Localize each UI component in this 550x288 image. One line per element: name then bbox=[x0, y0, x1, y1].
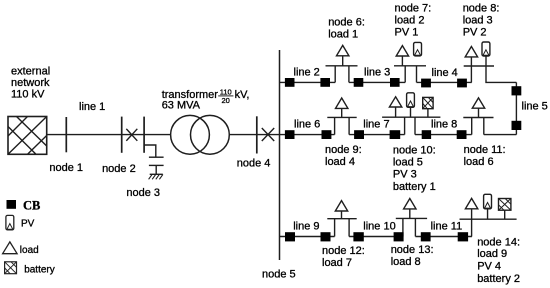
svg-text:node 5: node 5 bbox=[262, 269, 296, 281]
wire line 2 bbox=[280, 81, 336, 83]
node 12 right stub bbox=[348, 219, 350, 237]
load 8 triangle bbox=[404, 199, 416, 209]
battery 2 symbol bbox=[499, 199, 511, 220]
svg-text:battery 1: battery 1 bbox=[393, 181, 436, 193]
node 9 busbar bbox=[327, 116, 356, 118]
CB line 2 at bus bbox=[285, 78, 295, 87]
svg-text:load 4: load 4 bbox=[325, 156, 355, 168]
legend bbox=[3, 199, 55, 276]
legend battery symbol bbox=[5, 262, 17, 274]
svg-text:load 2: load 2 bbox=[395, 15, 425, 27]
node 7 left stub bbox=[404, 66, 406, 83]
CB line 2 at node 6 bbox=[320, 78, 330, 87]
svg-text:kV,: kV, bbox=[235, 89, 250, 101]
node 2 busbar bbox=[121, 117, 123, 153]
svg-text:line 7: line 7 bbox=[363, 119, 389, 131]
svg-text:node 2: node 2 bbox=[102, 163, 136, 175]
load 6 triangle bbox=[472, 98, 484, 108]
wire line 5 vertical bbox=[515, 82, 517, 134]
svg-text:line 11: line 11 bbox=[431, 220, 463, 232]
node 9 left stub bbox=[334, 117, 336, 134]
svg-text:node 9:: node 9: bbox=[325, 144, 362, 156]
node 14 stub bbox=[471, 219, 473, 236]
CB line 9 at bus bbox=[285, 232, 295, 241]
node 7 right stub bbox=[416, 66, 418, 83]
CB line 6 at bus bbox=[285, 130, 295, 139]
load 5 triangle bbox=[389, 97, 401, 107]
node 8 left stub bbox=[470, 66, 472, 82]
earthing branch wire bbox=[144, 145, 156, 157]
svg-text:63 MVA: 63 MVA bbox=[162, 100, 201, 112]
battery 1 symbol bbox=[423, 97, 433, 117]
ground symbol bbox=[149, 174, 163, 179]
node 6 left stub bbox=[334, 66, 336, 83]
svg-text:node 3: node 3 bbox=[126, 187, 160, 199]
svg-text:node 12:: node 12: bbox=[322, 245, 365, 257]
load 3 stem bbox=[470, 57, 472, 66]
load 5 stem bbox=[395, 107, 397, 117]
svg-text:line 1: line 1 bbox=[79, 101, 105, 113]
CB line 8 at node 11 bbox=[457, 130, 467, 139]
CB line 7 at node 9 bbox=[354, 130, 364, 139]
node 13 left stub bbox=[402, 218, 404, 236]
svg-text:PV 4: PV 4 bbox=[477, 260, 501, 272]
svg-text:node 14:: node 14: bbox=[477, 237, 520, 249]
wire line 9 bbox=[280, 236, 335, 238]
wire line 7 bbox=[349, 134, 405, 136]
CB line 7 at node 10 bbox=[390, 130, 401, 139]
svg-text:PV 3: PV 3 bbox=[393, 169, 417, 181]
wire line 6 bbox=[280, 134, 335, 136]
bus node 5 vertical bbox=[279, 50, 281, 260]
node 3 takeoff busbar bbox=[143, 117, 145, 153]
node 13 right stub bbox=[414, 218, 416, 236]
svg-text:battery: battery bbox=[24, 265, 55, 276]
load 1 triangle bbox=[337, 45, 349, 55]
legend PV symbol bbox=[6, 215, 14, 230]
CB line 3 at node 6 bbox=[354, 78, 364, 87]
node 6 right stub bbox=[348, 66, 350, 83]
svg-text:load 6: load 6 bbox=[464, 156, 494, 168]
svg-text:node 13:: node 13: bbox=[391, 244, 434, 256]
svg-text:line 5: line 5 bbox=[522, 100, 548, 112]
svg-text:node 10:: node 10: bbox=[393, 144, 436, 156]
wire node 11 to line 5 bbox=[484, 134, 517, 136]
svg-text:line 10: line 10 bbox=[363, 221, 395, 233]
PV 2 symbol bbox=[482, 42, 490, 66]
svg-text:line 6: line 6 bbox=[294, 119, 320, 131]
external network source box bbox=[8, 117, 47, 155]
svg-text:node 11:: node 11: bbox=[464, 144, 506, 156]
switch X between node 2 and node 3 bbox=[126, 129, 137, 141]
node 1 busbar bbox=[65, 117, 67, 152]
svg-text:PV 2: PV 2 bbox=[463, 27, 487, 39]
load 9 stem bbox=[471, 209, 473, 219]
load 3 triangle bbox=[465, 47, 477, 57]
transformer voltage fraction bbox=[220, 88, 232, 106]
load 9 triangle bbox=[465, 198, 477, 208]
node 6 busbar bbox=[326, 65, 358, 67]
node 10 right stub bbox=[414, 117, 416, 134]
CB line 4 at node 7 bbox=[421, 79, 431, 88]
node 9 right stub bbox=[348, 117, 350, 134]
node 11 right stub bbox=[483, 118, 485, 135]
node 11 left stub bbox=[471, 118, 473, 135]
load 1 stem bbox=[342, 56, 344, 66]
CB line 11 at node 14 bbox=[458, 232, 468, 241]
earthing gap lower plate bbox=[149, 164, 164, 166]
PV 3 symbol bbox=[407, 93, 415, 117]
svg-text:line 3: line 3 bbox=[364, 67, 390, 79]
svg-text:load 5: load 5 bbox=[393, 157, 423, 169]
wire node 8 to line 5 bbox=[486, 66, 516, 82]
CB line 6 at node 9 bbox=[322, 130, 332, 139]
CB squares bbox=[7, 78, 522, 241]
legend CB square bbox=[7, 200, 17, 209]
svg-text:line 9: line 9 bbox=[293, 221, 319, 233]
svg-text:battery 2: battery 2 bbox=[477, 273, 520, 285]
load 6 stem bbox=[478, 108, 480, 117]
svg-text:network: network bbox=[11, 77, 50, 89]
node 13 busbar bbox=[396, 217, 427, 219]
node 4 busbar bbox=[256, 116, 258, 153]
earthing stub bbox=[155, 165, 157, 174]
node 10 busbar bbox=[382, 116, 440, 118]
switch X at node 4 bbox=[262, 128, 274, 141]
CB line 11 at node 13 bbox=[421, 232, 431, 241]
load 2 triangle bbox=[396, 46, 408, 56]
transformer T1 bbox=[171, 115, 230, 154]
CB line 4 at node 8 bbox=[457, 79, 467, 88]
earthing gap upper plate bbox=[149, 156, 164, 158]
svg-text:20: 20 bbox=[222, 96, 230, 105]
PV 4 symbol bbox=[484, 194, 492, 219]
wire line 11 bbox=[415, 236, 472, 238]
wire line 4 bbox=[417, 81, 472, 83]
svg-text:node 1: node 1 bbox=[49, 162, 83, 174]
CB line 8 at node 10 bbox=[422, 130, 431, 139]
CB line 9 at node 12 bbox=[321, 232, 331, 241]
node 12 left stub bbox=[334, 219, 336, 237]
CB line 5 top bbox=[512, 86, 522, 95]
legend load triangle bbox=[3, 242, 18, 254]
svg-text:load: load bbox=[20, 245, 39, 256]
svg-text:line 4: line 4 bbox=[432, 67, 458, 79]
svg-text:load 3: load 3 bbox=[463, 15, 493, 27]
svg-text:node 7:: node 7: bbox=[395, 3, 432, 15]
node 11 busbar bbox=[463, 117, 493, 119]
CB line 10 at node 12 bbox=[353, 232, 363, 241]
svg-text:external: external bbox=[11, 65, 50, 77]
svg-text:load 1: load 1 bbox=[328, 28, 358, 40]
node 10 left stub bbox=[404, 117, 406, 134]
svg-text:load 9: load 9 bbox=[477, 248, 507, 260]
node 14 busbar bbox=[460, 218, 517, 220]
svg-text:line 2: line 2 bbox=[294, 67, 320, 79]
wire line 3 bbox=[349, 81, 405, 83]
load 8 stem bbox=[409, 209, 411, 219]
svg-text:CB: CB bbox=[23, 199, 40, 213]
svg-text:node 8:: node 8: bbox=[463, 3, 500, 15]
CB line 3 at node 7 bbox=[390, 78, 400, 87]
svg-text:load 8: load 8 bbox=[391, 256, 421, 268]
svg-text:PV: PV bbox=[21, 219, 35, 230]
svg-text:PV 1: PV 1 bbox=[395, 27, 419, 39]
load 4 stem bbox=[341, 108, 343, 117]
svg-text:line 8: line 8 bbox=[431, 118, 457, 130]
fraction bar bbox=[218, 95, 233, 97]
load 2 stem bbox=[401, 56, 403, 66]
node 12 busbar bbox=[327, 218, 356, 220]
node 8 busbar bbox=[464, 65, 494, 67]
svg-text:node 4: node 4 bbox=[237, 158, 271, 170]
wire: transformer to bus node 5 bbox=[230, 134, 280, 136]
load 4 triangle bbox=[336, 98, 348, 108]
svg-text:load 7: load 7 bbox=[322, 257, 352, 269]
wire line 8 bbox=[415, 134, 472, 136]
CB line 10 at node 13 bbox=[394, 232, 404, 241]
wire line 1: external network to transformer bbox=[47, 134, 171, 136]
CB line 5 bottom bbox=[512, 121, 522, 130]
PV 1 symbol bbox=[414, 42, 422, 56]
svg-text:110 kV: 110 kV bbox=[11, 89, 45, 101]
load 7 triangle bbox=[335, 201, 347, 211]
svg-text:node 6:: node 6: bbox=[328, 16, 365, 28]
node 7 busbar bbox=[394, 65, 426, 67]
wire line 10 bbox=[349, 236, 403, 238]
load 7 stem bbox=[341, 211, 343, 219]
